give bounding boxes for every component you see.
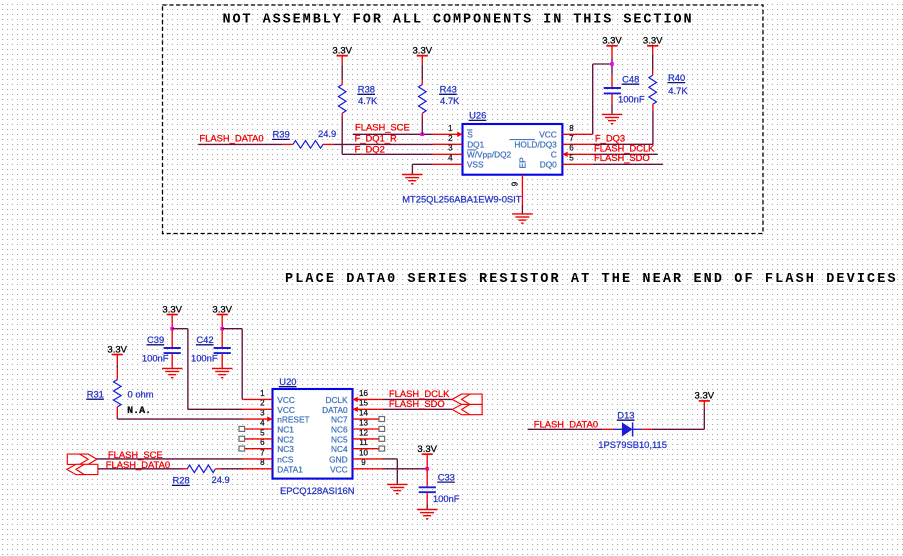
svg-text:MT25QL256ABA1EW9-0SIT: MT25QL256ABA1EW9-0SIT	[402, 194, 522, 205]
label C33	[437, 471, 455, 482]
svg-text:S: S	[467, 130, 473, 140]
svg-text:DCLK: DCLK	[325, 395, 348, 405]
svg-text:FLASH_SDO: FLASH_SDO	[389, 398, 445, 409]
svg-text:100nF: 100nF	[433, 493, 460, 504]
svg-text:PLACE DATA0 SERIES RESISTOR AT: PLACE DATA0 SERIES RESISTOR AT THE NEAR …	[285, 272, 898, 287]
label D13	[617, 409, 635, 420]
ground (C33)	[417, 510, 438, 519]
pin stub U26 pin1	[433, 133, 463, 135]
svg-text:5: 5	[569, 154, 574, 163]
svg-text:10: 10	[359, 448, 368, 457]
svg-text:NC4: NC4	[331, 444, 348, 454]
pin numbers U26 right 8 7 6 5	[569, 124, 574, 163]
junction C42/VCC branch	[220, 327, 224, 330]
svg-text:FLASH_DATA0: FLASH_DATA0	[199, 132, 263, 143]
wire 3.3V to R43	[421, 56, 423, 85]
label R43	[439, 84, 457, 95]
no-connect square NC2	[239, 436, 245, 441]
pin numbers U26 left 1 2 3 4	[448, 124, 453, 163]
pin stub U20 pin15 DATA0	[353, 408, 383, 410]
svg-text:DQ0: DQ0	[540, 160, 557, 170]
pin stub U26 pin6	[562, 153, 592, 155]
svg-text:3.3V: 3.3V	[417, 444, 437, 455]
svg-text:4.7K: 4.7K	[358, 95, 378, 106]
pin stub U20 pin6 NC3	[245, 448, 273, 450]
diode D13	[603, 422, 652, 436]
svg-text:FLASH_DATA0: FLASH_DATA0	[534, 419, 598, 430]
wire C48 to ground	[611, 94, 613, 114]
svg-text:VCC: VCC	[277, 395, 295, 405]
svg-text:16: 16	[359, 389, 368, 398]
no-connect square NC7	[379, 417, 385, 422]
label R40	[668, 72, 686, 83]
wire U26 pin4 VSS to ground	[412, 164, 432, 174]
svg-text:EPCQ128ASI16N: EPCQ128ASI16N	[280, 485, 355, 496]
svg-text:R28: R28	[173, 475, 190, 486]
svg-text:3.3V: 3.3V	[212, 305, 232, 316]
svg-text:D13: D13	[617, 409, 634, 420]
pin stub U20 pin9 VCC	[353, 468, 383, 470]
svg-text:DQ1: DQ1	[467, 140, 484, 150]
svg-text:R31: R31	[87, 388, 104, 399]
input arrow U20 pin15	[353, 407, 358, 412]
power 3.3V (R40)	[643, 36, 663, 47]
wire FLASH_DATA0 to D13	[528, 428, 603, 430]
svg-text:N.A.: N.A.	[127, 406, 151, 417]
wire FLASH_DATA0 to R39	[198, 143, 283, 145]
ground (U26 EP)	[512, 214, 533, 223]
svg-text:DATA1: DATA1	[277, 464, 303, 474]
pin stub U20 pin12 NC5	[353, 438, 380, 440]
capacitor C39	[164, 348, 181, 353]
resistor R31	[114, 380, 122, 407]
wire U26 EP pin9 to ground	[521, 175, 523, 214]
svg-text:NC7: NC7	[331, 415, 348, 425]
flash config device U20 body	[273, 389, 353, 479]
wire junction to U20 pin2	[172, 329, 242, 410]
svg-text:W/Vpp/DQ2: W/Vpp/DQ2	[467, 150, 512, 160]
svg-text:100nF: 100nF	[142, 353, 169, 364]
power 3.3V (C39)	[162, 305, 182, 316]
label R31	[86, 388, 104, 399]
label C48	[622, 73, 640, 84]
pin stub U26 pin2	[433, 143, 463, 145]
svg-text:NC1: NC1	[277, 425, 294, 435]
pin stub U26 pin3	[433, 153, 463, 155]
input arrow U26 pin1	[457, 132, 462, 137]
svg-text:3.3V: 3.3V	[413, 45, 433, 56]
wire U26 pin8 VCC up to 3.3V	[593, 64, 612, 134]
no-connect square NC5	[379, 436, 385, 441]
wire 3.3V to C39 junction	[171, 315, 173, 328]
pin numbers U20 right 16-9	[359, 389, 368, 467]
flash memory U26 body	[463, 124, 563, 175]
svg-text:24.9: 24.9	[212, 474, 230, 485]
pin numbers U20 left 1-8	[260, 389, 265, 467]
pin stub U20 pin16 DCLK	[353, 398, 383, 400]
svg-text:NC3: NC3	[277, 444, 294, 454]
wire C33 to ground	[426, 493, 428, 509]
svg-text:F_DQ2: F_DQ2	[355, 143, 385, 154]
svg-text:NC2: NC2	[277, 434, 294, 444]
pin stub U20 pin14 NC7	[353, 418, 380, 420]
resistor R39	[283, 141, 334, 149]
svg-text:C: C	[551, 150, 557, 160]
svg-text:C33: C33	[438, 471, 455, 482]
svg-text:FLASH_SCE: FLASH_SCE	[355, 121, 410, 132]
wire U20 pin15 to port FLASH_SDO	[383, 408, 453, 410]
power 3.3V (R31)	[107, 344, 127, 355]
label R39	[272, 129, 290, 140]
pin stub U20 pin13 NC6	[353, 428, 380, 430]
pin names U20 right	[322, 395, 348, 474]
svg-text:U20: U20	[279, 376, 296, 387]
svg-text:100nF: 100nF	[191, 353, 218, 364]
junction C48/VCC	[610, 62, 614, 65]
svg-text:7: 7	[260, 448, 265, 457]
svg-text:VCC: VCC	[539, 130, 557, 140]
pin name DQ1 (U26)	[467, 140, 485, 150]
wire U20 pin9 VCC to junction	[383, 468, 428, 470]
svg-text:2: 2	[448, 134, 453, 143]
label U26	[469, 110, 487, 121]
svg-text:1PS79SB10,115: 1PS79SB10,115	[598, 439, 667, 450]
capacitor C42	[214, 348, 231, 353]
svg-text:nRESET: nRESET	[277, 415, 309, 425]
resistor R43	[419, 85, 427, 114]
wire R31 to U20 pin3 nRESET	[117, 407, 242, 419]
wire R43 down to FLASH_SCE wire	[421, 113, 423, 134]
svg-text:NOT ASSEMBLY FOR ALL COMPONENT: NOT ASSEMBLY FOR ALL COMPONENTS IN THIS …	[223, 13, 694, 28]
svg-text:6: 6	[569, 144, 574, 153]
pin stub U20 pin11 NC4	[353, 448, 380, 450]
svg-text:GND: GND	[329, 454, 347, 464]
wire 3.3V to C42 junction	[221, 315, 223, 328]
offpage port FLASH_SCE	[67, 454, 97, 464]
offpage port FLASH_SDO	[452, 404, 482, 414]
svg-text:7: 7	[569, 134, 574, 143]
no-connect square NC3	[239, 446, 245, 451]
pin stub U20 pin10 GND	[353, 458, 383, 460]
power 3.3V (R38)	[332, 45, 352, 56]
pin names U20 left	[277, 395, 309, 474]
wire FLASH_SCE to U26 pin 1	[353, 133, 433, 135]
ground (C48)	[602, 114, 623, 123]
junction R43/FLASH_SCE	[420, 133, 424, 136]
pin stub U26 pin4	[433, 163, 463, 165]
wire C39 to ground	[171, 354, 173, 368]
pin stub U20 pin2	[243, 408, 273, 410]
pin stub U26 pin7	[562, 143, 592, 145]
no-connect square NC1	[239, 426, 245, 431]
svg-text:9: 9	[511, 181, 520, 186]
power 3.3V (C48)	[602, 36, 622, 47]
resistor R40	[649, 75, 657, 104]
pin stub U20 pin1	[243, 398, 273, 400]
svg-text:C42: C42	[196, 334, 213, 345]
svg-text:HOLD/DQ3: HOLD/DQ3	[514, 140, 557, 150]
svg-text:C48: C48	[622, 73, 639, 84]
pin name HOLD/DQ3 (U26) with overbar	[510, 140, 558, 150]
wire FLASH_DATA0 port to R28	[98, 468, 182, 470]
wire 3.3V to R40	[652, 46, 654, 75]
svg-text:4.7K: 4.7K	[440, 95, 460, 106]
input arrow U20 pin16	[353, 397, 358, 402]
power 3.3V (C42)	[212, 305, 232, 316]
pin stub U20 pin7 nCS	[243, 458, 273, 460]
wire junction to C39	[171, 330, 173, 347]
wire 3.3V to junction	[611, 46, 613, 63]
wire D13 to 3.3V	[652, 401, 705, 429]
pin stub U20 pin8 DATA1	[243, 468, 273, 470]
clock input arrow U26 pin6	[562, 152, 567, 157]
dashed section boundary box	[163, 5, 764, 234]
ground (U26 VSS)	[402, 175, 423, 184]
ground (C39)	[162, 368, 183, 377]
wire junction to C48	[611, 66, 613, 88]
wire C42 to ground	[221, 354, 223, 368]
svg-text:0 ohm: 0 ohm	[128, 388, 154, 399]
wire U20 pin16 to port FLASH_DCLK	[383, 398, 453, 400]
svg-text:3.3V: 3.3V	[643, 36, 663, 47]
wire R28 to U20 pin8 DATA1	[221, 468, 243, 470]
power 3.3V (D13)	[695, 391, 715, 402]
offpage port FLASH_DCLK	[452, 394, 482, 404]
wire FLASH_DCLK (pin6)	[592, 153, 657, 155]
power 3.3V (R43)	[413, 45, 433, 56]
svg-text:VSS: VSS	[467, 160, 484, 170]
label C39	[147, 334, 165, 345]
wire FLASH_SCE port to U20 pin7 nCS	[97, 458, 243, 460]
wire junction to C33	[426, 469, 428, 487]
no-connect square NC6	[379, 426, 385, 431]
wire junction to C42	[221, 330, 223, 347]
svg-text:R43: R43	[440, 84, 457, 95]
svg-text:nCS: nCS	[277, 454, 294, 464]
pin name S (U26) with overbar	[467, 130, 473, 140]
offpage port FLASH_DATA0	[67, 464, 98, 474]
junction C39/VCC branch	[170, 327, 174, 330]
label R38	[357, 84, 375, 95]
svg-text:1: 1	[448, 124, 453, 133]
svg-text:100nF: 100nF	[618, 94, 645, 105]
svg-text:R39: R39	[273, 129, 290, 140]
capacitor C48	[604, 88, 621, 93]
svg-text:FLASH_SDO: FLASH_SDO	[594, 152, 650, 163]
svg-text:C39: C39	[147, 334, 164, 345]
svg-text:VCC: VCC	[277, 405, 295, 415]
junction C33/VCC	[425, 467, 429, 470]
pin stub U26 pin5	[562, 163, 592, 165]
svg-text:24.9: 24.9	[318, 128, 336, 139]
svg-text:3.3V: 3.3V	[162, 305, 182, 316]
capacitor C33	[419, 487, 436, 492]
svg-text:4.7K: 4.7K	[668, 85, 688, 96]
wire 3.3V to junction (C33)	[426, 454, 428, 469]
svg-text:U26: U26	[469, 110, 486, 121]
ground (U20 GND)	[387, 484, 408, 493]
power 3.3V (C33)	[417, 444, 437, 455]
no-connect square NC4	[379, 446, 385, 451]
svg-text:NC5: NC5	[331, 434, 348, 444]
ground (C42)	[212, 368, 233, 377]
wire R38 to F_DQ2 net	[342, 113, 432, 154]
pin stub U26 pin8	[562, 133, 592, 135]
label U20	[279, 376, 297, 387]
svg-text:R38: R38	[358, 84, 375, 95]
wire U20 pin10 GND to ground	[383, 459, 398, 484]
wire F_DQ3 (pin7 to R40)	[592, 143, 653, 145]
label R28	[172, 475, 190, 486]
svg-text:EP: EP	[517, 157, 527, 169]
wire R39 to U26 pin 2	[333, 143, 432, 145]
svg-text:3.3V: 3.3V	[695, 391, 715, 402]
wire 3.3V to R31	[116, 355, 118, 380]
svg-text:R40: R40	[668, 72, 685, 83]
svg-text:DATA0: DATA0	[322, 405, 348, 415]
svg-text:4: 4	[448, 154, 453, 163]
resistor R28	[182, 465, 221, 473]
wire R40 down to F_DQ3 net	[652, 104, 654, 144]
wire junction to U20 pin1	[222, 329, 242, 400]
pin stub U20 pin3 nRESET	[243, 418, 273, 420]
svg-text:3.3V: 3.3V	[602, 36, 622, 47]
svg-text:8: 8	[569, 124, 574, 133]
svg-text:3.3V: 3.3V	[332, 45, 352, 56]
label C42	[196, 334, 214, 345]
input arrow U20 pin3	[267, 416, 272, 421]
svg-text:3.3V: 3.3V	[107, 344, 127, 355]
wire 3.3V to R38	[341, 56, 343, 85]
svg-text:VCC: VCC	[330, 464, 348, 474]
wire FLASH_SDO (pin5)	[592, 163, 663, 165]
svg-text:NC6: NC6	[331, 425, 348, 435]
svg-text:1: 1	[260, 389, 265, 398]
svg-text:3: 3	[448, 144, 453, 153]
resistor R38	[338, 85, 346, 114]
pin stub U20 pin5 NC2	[245, 438, 273, 440]
pin stub U20 pin4 NC1	[245, 428, 273, 430]
